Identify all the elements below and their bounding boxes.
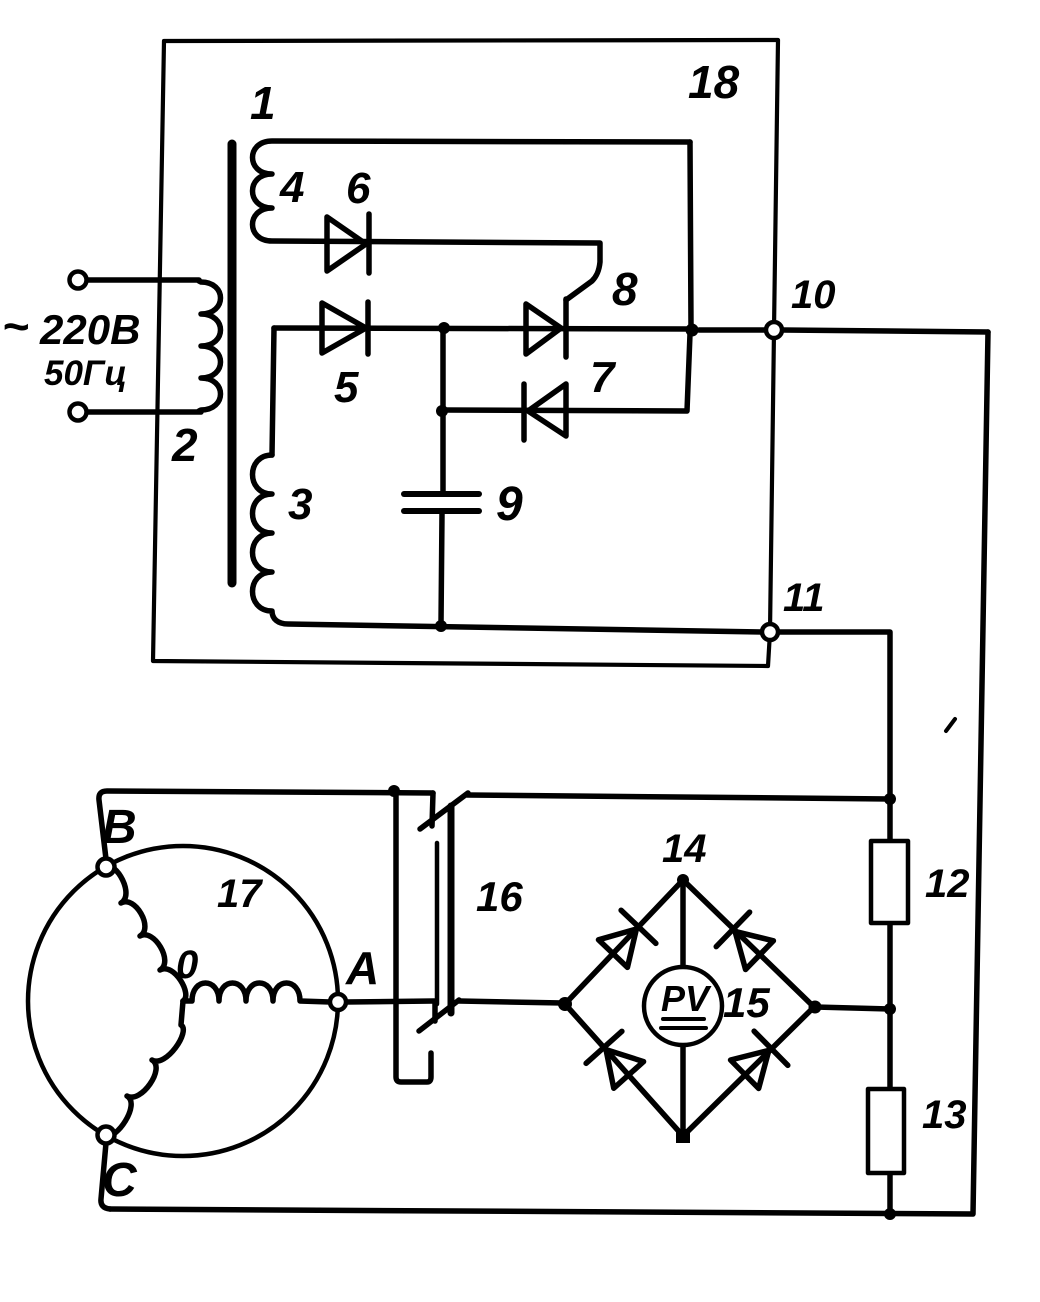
svg-text:1: 1 <box>250 77 276 129</box>
svg-text:7: 7 <box>590 353 617 402</box>
svg-text:12: 12 <box>925 862 970 906</box>
svg-text:8: 8 <box>612 263 638 315</box>
svg-text:3: 3 <box>288 480 312 529</box>
svg-text:17: 17 <box>217 872 263 916</box>
svg-text:9: 9 <box>496 478 523 531</box>
svg-text:50Гц: 50Гц <box>44 354 127 393</box>
svg-text:5: 5 <box>334 363 359 412</box>
svg-text:220В: 220В <box>39 306 140 353</box>
svg-text:PV: PV <box>661 978 712 1019</box>
svg-text:B: B <box>102 801 137 854</box>
svg-text:C: C <box>102 1154 138 1207</box>
svg-text:15: 15 <box>723 979 770 1026</box>
svg-text:13: 13 <box>922 1093 967 1137</box>
svg-text:14: 14 <box>662 827 707 871</box>
svg-text:11: 11 <box>783 576 825 620</box>
svg-text:16: 16 <box>476 873 523 920</box>
svg-text:2: 2 <box>171 419 198 471</box>
svg-text:10: 10 <box>791 273 836 317</box>
svg-text:~: ~ <box>2 300 29 352</box>
svg-text:A: A <box>345 942 379 994</box>
svg-text:6: 6 <box>346 164 371 213</box>
svg-text:0: 0 <box>176 943 198 987</box>
svg-text:4: 4 <box>279 163 304 212</box>
svg-text:18: 18 <box>688 56 740 108</box>
